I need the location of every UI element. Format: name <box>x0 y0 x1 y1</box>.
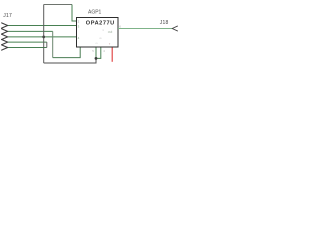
junction dot on row3 <box>42 36 45 39</box>
wire feedback drop to U pin (left y21) <box>72 5 77 22</box>
wire row4 (J17 pin4) <box>8 41 47 43</box>
output wire to J18 <box>118 28 172 30</box>
svg-text:out: out <box>108 30 113 34</box>
wire row1 (J17 pin1 to U left pin) <box>8 25 77 27</box>
wire feedback vertical A <box>43 5 45 64</box>
wire row3 (J17 pin3 to U left pin) <box>8 36 77 38</box>
svg-text:OPA277U: OPA277U <box>86 21 115 27</box>
wire U bottom stub elbow x101 <box>96 47 101 58</box>
svg-text:AGP1: AGP1 <box>88 9 102 15</box>
connector J17 pin3 arrow <box>2 34 8 39</box>
svg-text:J18: J18 <box>160 20 169 26</box>
connector J17 pin2 arrow <box>2 29 8 34</box>
connector J17 pin4 arrow <box>2 40 8 45</box>
wire feedback top horizontal <box>44 4 72 6</box>
svg-text:J17: J17 <box>3 13 12 19</box>
wire row2 (J17 pin2) <box>8 30 53 32</box>
wire row5 (J17 pin5) <box>8 47 47 49</box>
connector J17 pin1 arrow <box>2 23 8 28</box>
background <box>0 0 180 72</box>
wire U bottom stub x96 <box>95 47 97 58</box>
wire row2 elbow horizontal + U bottom pin <box>53 47 80 58</box>
wire row2 elbow vertical <box>52 31 54 57</box>
junction dot bottom <box>95 57 98 60</box>
wire bottom horizontal <box>44 58 96 63</box>
connector J18 arrow <box>172 26 177 31</box>
wire joining row4 to row5 <box>46 42 48 47</box>
op-amp U box <box>77 18 119 48</box>
red power stub <box>111 47 113 62</box>
connector J17 pin5 arrow <box>2 45 8 50</box>
